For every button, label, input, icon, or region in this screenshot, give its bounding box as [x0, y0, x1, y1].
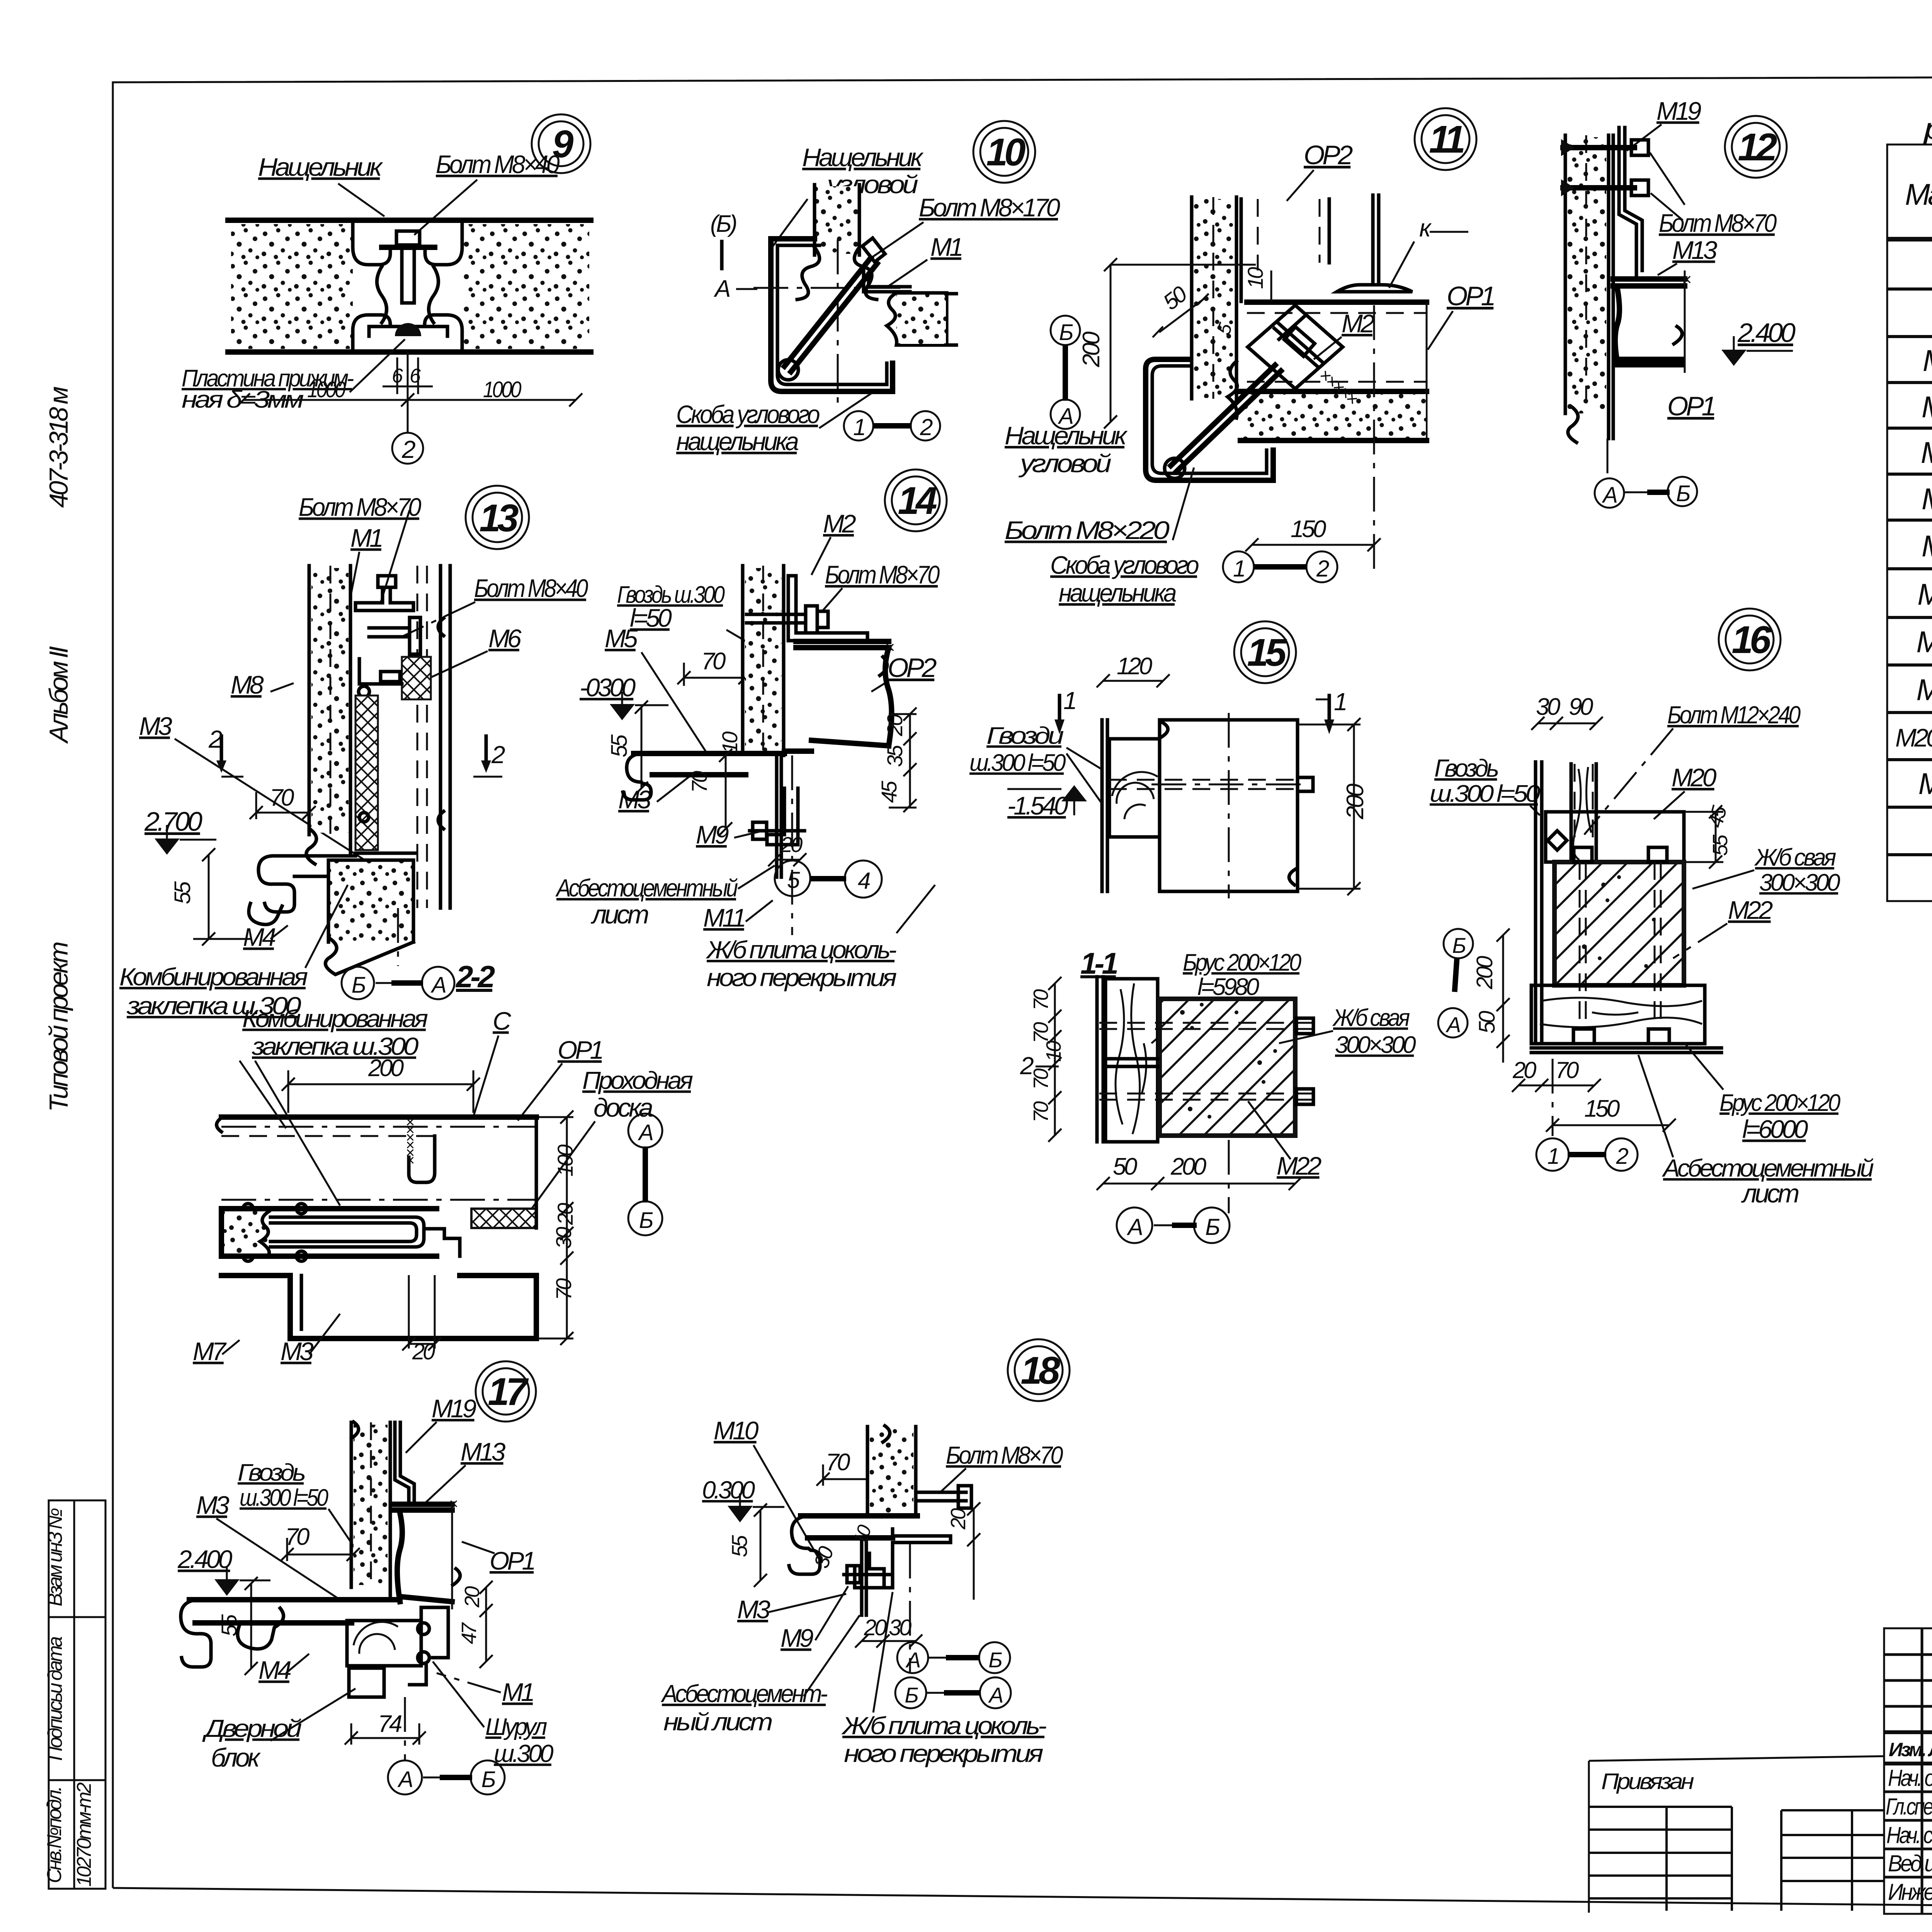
svg-text:200: 200 [368, 1055, 404, 1082]
svg-text:М 13: М 13 [1916, 625, 1932, 659]
svg-text:Нащельник: Нащельник [1005, 421, 1128, 450]
svg-text:30: 30 [889, 1615, 912, 1640]
svg-text:М4: М4 [259, 1656, 291, 1684]
svg-text:ОР1: ОР1 [1667, 391, 1715, 421]
svg-text:l=5980: l=5980 [1197, 974, 1259, 1000]
svg-text:Комбинированная: Комбинированная [242, 1005, 428, 1032]
svg-text:М11: М11 [703, 903, 745, 932]
svg-text:Шурул: Шурул [485, 1714, 547, 1740]
svg-text:-1.540: -1.540 [1007, 791, 1068, 820]
svg-text:М20; М21: М20; М21 [1895, 723, 1932, 752]
svg-text:150: 150 [1584, 1095, 1620, 1122]
svg-text:2: 2 [920, 414, 933, 440]
svg-text:10: 10 [1042, 1041, 1065, 1062]
svg-text:200: 200 [1078, 332, 1105, 367]
svg-text:10: 10 [986, 131, 1026, 174]
svg-text:Болт М8×70: Болт М8×70 [946, 1441, 1063, 1469]
svg-text:120: 120 [1117, 653, 1152, 680]
svg-text:70: 70 [551, 1278, 576, 1300]
svg-text:А: А [430, 973, 446, 998]
svg-text:М2: М2 [1923, 344, 1932, 378]
svg-text:ОР1: ОР1 [558, 1036, 602, 1064]
svg-text:М3: М3 [196, 1491, 230, 1519]
svg-text:1000: 1000 [307, 377, 345, 402]
svg-text:М9: М9 [1922, 529, 1932, 563]
svg-text:150: 150 [1291, 516, 1326, 543]
svg-text:ОР2: ОР2 [1304, 140, 1353, 170]
svg-text:100: 100 [553, 1145, 577, 1177]
svg-text:Вед.инж.: Вед.инж. [1888, 1850, 1932, 1876]
svg-text:2: 2 [401, 435, 415, 463]
svg-text:лист: лист [590, 900, 648, 929]
svg-text:Взам инЗ №: Взам инЗ № [44, 1508, 66, 1606]
svg-text:Болт М8×40: Болт М8×40 [436, 150, 560, 179]
svg-text:1: 1 [1233, 556, 1244, 582]
svg-text:55: 55 [607, 734, 632, 757]
detail 15 [969, 621, 1416, 1243]
svg-text:М6: М6 [1922, 390, 1932, 424]
svg-text:Б: Б [988, 1648, 1002, 1672]
svg-text:11: 11 [1429, 118, 1464, 161]
svg-text:Проходная: Проходная [582, 1066, 693, 1094]
svg-text:20: 20 [553, 1203, 577, 1225]
svg-text:Б: Б [481, 1767, 495, 1792]
svg-text:2: 2 [491, 741, 505, 769]
svg-text:50: 50 [1113, 1153, 1137, 1180]
svg-text:А: А [397, 1767, 412, 1792]
detail 14 [555, 469, 947, 992]
svg-text:74: 74 [378, 1711, 402, 1737]
left bottom stamp table [43, 1500, 105, 1889]
svg-text:(Б): (Б) [710, 211, 736, 237]
svg-text:М22: М22 [1918, 767, 1932, 801]
svg-text:1: 1 [1063, 687, 1075, 714]
svg-text:70: 70 [1555, 1057, 1579, 1083]
svg-text:2: 2 [1616, 1144, 1628, 1169]
svg-text:М9: М9 [781, 1624, 813, 1652]
svg-text:15: 15 [1247, 631, 1287, 674]
svg-text:4: 4 [858, 868, 870, 894]
svg-text:200: 200 [1170, 1153, 1206, 1180]
svg-text:20: 20 [947, 1508, 970, 1530]
svg-text:47: 47 [457, 1622, 481, 1644]
svg-text:407-3-318 м: 407-3-318 м [44, 386, 73, 508]
svg-text:Нащельник: Нащельник [802, 143, 924, 172]
svg-text:Гвозди: Гвозди [986, 723, 1064, 749]
svg-text:70: 70 [687, 771, 711, 793]
svg-text:М6: М6 [488, 624, 522, 653]
svg-text:10: 10 [718, 731, 742, 753]
detail 12 [1561, 97, 1796, 508]
svg-text:1: 1 [853, 414, 864, 440]
svg-text:90: 90 [1569, 694, 1593, 720]
svg-text:2.400: 2.400 [1737, 318, 1796, 348]
svg-text:М1: М1 [350, 524, 382, 552]
svg-text:ш.300: ш.300 [494, 1740, 554, 1767]
svg-text:70: 70 [1029, 1022, 1053, 1043]
svg-text:2-2: 2-2 [455, 959, 495, 994]
svg-text:10270тм-т2: 10270тм-т2 [73, 1782, 95, 1886]
svg-text:Болт М12×240: Болт М12×240 [1667, 701, 1801, 729]
svg-text:1-1: 1-1 [1080, 946, 1117, 980]
svg-text:200: 200 [1342, 784, 1369, 820]
svg-text:А: А [905, 1648, 920, 1672]
svg-text:Болт М8×220: Болт М8×220 [1005, 516, 1170, 544]
privyazan box [1589, 1756, 1884, 1913]
svg-text:ОР1: ОР1 [490, 1546, 534, 1575]
svg-text:2: 2 [1316, 556, 1329, 582]
svg-text:Асбестоцементный: Асбестоцементный [555, 874, 738, 902]
svg-text:Подписьи дата: Подписьи дата [44, 1636, 66, 1761]
svg-text:Брус 200×120: Брус 200×120 [1719, 1090, 1840, 1116]
svg-text:М1: М1 [502, 1678, 533, 1706]
svg-text:17: 17 [488, 1370, 529, 1413]
svg-text:Комбинированная: Комбинированная [119, 963, 308, 991]
svg-text:С: С [493, 1007, 512, 1035]
svg-text:М1: М1 [930, 233, 962, 261]
svg-text:0.300: 0.300 [702, 1476, 755, 1504]
svg-text:А: А [1127, 1214, 1142, 1240]
svg-text:ного перекрытия: ного перекрытия [844, 1740, 1043, 1767]
svg-text:М3: М3 [281, 1337, 314, 1366]
svg-text:М10: М10 [714, 1416, 759, 1445]
svg-text:А: А [1602, 483, 1617, 508]
svg-text:Б: Б [639, 1208, 653, 1233]
svg-text:Ж/б свая: Ж/б свая [1332, 1005, 1410, 1031]
svg-text:1: 1 [1547, 1144, 1558, 1169]
svg-text:12: 12 [1738, 126, 1777, 169]
svg-text:55: 55 [1709, 834, 1732, 856]
svg-text:ного перекрытия: ного перекрытия [707, 964, 896, 992]
svg-text:М19: М19 [432, 1394, 476, 1423]
svg-text:М8: М8 [231, 670, 264, 699]
svg-text:Асбестоцемент-: Асбестоцемент- [660, 1680, 827, 1708]
detail 16 [1430, 609, 1874, 1208]
svg-text:Скоба углового: Скоба углового [676, 400, 820, 429]
svg-text:55: 55 [727, 1535, 752, 1557]
svg-text:Б: Б [905, 1683, 918, 1707]
svg-text:А: А [638, 1120, 653, 1145]
svg-text:Альбом II: Альбом II [44, 646, 73, 744]
svg-text:Изм.: Изм. [1889, 1739, 1925, 1760]
svg-text:Дверной: Дверной [202, 1714, 302, 1742]
svg-text:××××××: ×××××× [402, 1118, 419, 1165]
svg-text:М13: М13 [461, 1437, 506, 1466]
svg-text:Асбестоцементный: Асбестоцементный [1662, 1154, 1874, 1182]
title block bottom right [1884, 1628, 1932, 1914]
svg-text:16: 16 [1731, 618, 1772, 662]
svg-text:М7: М7 [193, 1337, 227, 1366]
svg-text:45: 45 [877, 781, 901, 803]
svg-text:ш.300 l=50: ш.300 l=50 [240, 1485, 328, 1511]
svg-text:М4: М4 [243, 923, 276, 951]
svg-text:Снв.№подл.: Снв.№подл. [43, 1787, 66, 1883]
svg-text:нащельника: нащельника [1059, 578, 1176, 607]
svg-text:70: 70 [1029, 989, 1053, 1010]
left rotated sheet title [44, 386, 73, 1112]
svg-text:Гвоздь: Гвоздь [1434, 754, 1498, 782]
svg-text:Нащельник: Нащельник [258, 153, 383, 181]
svg-text:Б: Б [352, 973, 366, 998]
svg-text:расположенным на листе КМ7: расположенным на листе КМ7 (продолжение) [1923, 112, 1932, 146]
svg-text:30: 30 [1536, 694, 1560, 720]
svg-text:35: 35 [883, 745, 907, 767]
svg-text:нащельника: нащельника [676, 427, 798, 456]
svg-text:Болт М8×170: Болт М8×170 [919, 193, 1060, 222]
svg-text:А: А [1446, 1012, 1460, 1037]
svg-text:М5: М5 [605, 624, 638, 653]
svg-text:Брус 200×120: Брус 200×120 [1183, 949, 1301, 976]
svg-text:М7: М7 [1921, 435, 1932, 469]
svg-text:Нач. отд: Нач. отд [1888, 1765, 1932, 1791]
svg-text:14: 14 [898, 479, 937, 522]
svg-text:М22: М22 [1728, 896, 1773, 924]
svg-text:М8: М8 [1922, 482, 1932, 516]
svg-text:×: × [885, 638, 894, 657]
svg-text:Ж/б плита цоколь-: Ж/б плита цоколь- [706, 936, 896, 964]
svg-text:×: × [1682, 270, 1691, 289]
svg-text:Марка: Марка [1905, 177, 1932, 211]
svg-text:М9: М9 [696, 820, 729, 849]
detail 17 [177, 1361, 554, 1794]
detail 11 [1005, 108, 1494, 607]
svg-text:лист: лист [1741, 1179, 1799, 1208]
svg-text:М13: М13 [1672, 236, 1718, 264]
svg-text:Болт М8×40: Болт М8×40 [474, 574, 588, 602]
svg-text:А: А [988, 1683, 1003, 1707]
detail 18 [660, 1339, 1070, 1767]
svg-text:ш.300 l=50: ш.300 l=50 [969, 750, 1066, 776]
svg-text:300×300: 300×300 [1759, 869, 1840, 896]
svg-text:М 19: М 19 [1916, 673, 1932, 707]
svg-text:М22: М22 [1277, 1151, 1321, 1180]
svg-text:l=50: l=50 [630, 604, 672, 632]
svg-text:20: 20 [883, 714, 907, 736]
svg-text:Ж/б плита цоколь-: Ж/б плита цоколь- [841, 1712, 1046, 1740]
svg-text:1000: 1000 [483, 377, 521, 402]
svg-text:l=6000: l=6000 [1742, 1115, 1808, 1143]
detail 9 [182, 114, 591, 464]
svg-text:доска: доска [594, 1093, 653, 1122]
svg-text:2: 2 [208, 725, 222, 753]
svg-text:70: 70 [270, 784, 294, 811]
svg-text:Болт М8×70: Болт М8×70 [825, 560, 940, 589]
svg-text:блок: блок [211, 1743, 261, 1772]
svg-text:2.700: 2.700 [144, 806, 202, 837]
svg-text:1: 1 [1334, 688, 1346, 716]
svg-text:×: × [449, 1495, 457, 1512]
svg-text:ОР2: ОР2 [888, 653, 937, 683]
svg-text:М3: М3 [139, 712, 172, 740]
detail 10 [676, 121, 1060, 456]
spec table top right [1887, 85, 1932, 901]
svg-text:Б: Б [1452, 933, 1466, 957]
svg-text:Болт М8×70: Болт М8×70 [1659, 209, 1777, 237]
svg-text:13: 13 [479, 497, 519, 540]
svg-text:55: 55 [170, 881, 195, 904]
svg-text:70: 70 [1029, 1068, 1053, 1090]
section 2-2 [193, 959, 693, 1366]
svg-text:Скоба углового: Скоба углового [1050, 551, 1199, 579]
svg-text:М20: М20 [1672, 763, 1717, 792]
svg-text:ный лист: ный лист [663, 1708, 772, 1736]
svg-text:М 11: М 11 [1917, 577, 1932, 611]
svg-text:Привязан: Привязан [1601, 1769, 1694, 1794]
svg-text:20: 20 [461, 1586, 484, 1608]
svg-text:Инженер: Инженер [1888, 1879, 1932, 1905]
svg-text:М19: М19 [1656, 97, 1701, 125]
svg-text:70: 70 [701, 648, 726, 675]
svg-text:Болт М8×70: Болт М8×70 [299, 493, 422, 521]
svg-text:70: 70 [285, 1524, 310, 1550]
svg-text:М3: М3 [737, 1595, 770, 1624]
svg-text:М2: М2 [1342, 309, 1374, 338]
svg-text:Б: Б [1059, 320, 1073, 345]
svg-text:Ж/б свая: Ж/б свая [1754, 844, 1836, 871]
svg-text:10: 10 [1243, 267, 1267, 289]
svg-text:А: А [713, 276, 730, 302]
svg-text:Нач. сект: Нач. сект [1886, 1822, 1932, 1848]
svg-text:300×300: 300×300 [1335, 1032, 1416, 1058]
svg-text:Типовой проект: Типовой проект [44, 942, 73, 1112]
svg-text:18: 18 [1020, 1349, 1060, 1392]
svg-text:М2: М2 [823, 509, 856, 538]
detail 13 [119, 486, 588, 1020]
svg-text:Гл.спецСО: Гл.спецСО [1886, 1794, 1932, 1820]
svg-text:Б: Б [1676, 481, 1690, 506]
svg-text:200: 200 [1472, 956, 1497, 990]
svg-text:ОР1: ОР1 [1447, 281, 1494, 311]
svg-text:2.400: 2.400 [177, 1545, 233, 1573]
svg-text:угловой: угловой [1018, 449, 1111, 478]
svg-text:50: 50 [1475, 1011, 1500, 1034]
svg-text:ш.300 l=50: ш.300 l=50 [1430, 781, 1540, 807]
svg-text:-0300: -0300 [580, 673, 636, 702]
svg-text:Б: Б [1205, 1214, 1219, 1240]
svg-text:Гвоздь: Гвоздь [238, 1459, 304, 1486]
svg-text:70: 70 [826, 1449, 850, 1476]
